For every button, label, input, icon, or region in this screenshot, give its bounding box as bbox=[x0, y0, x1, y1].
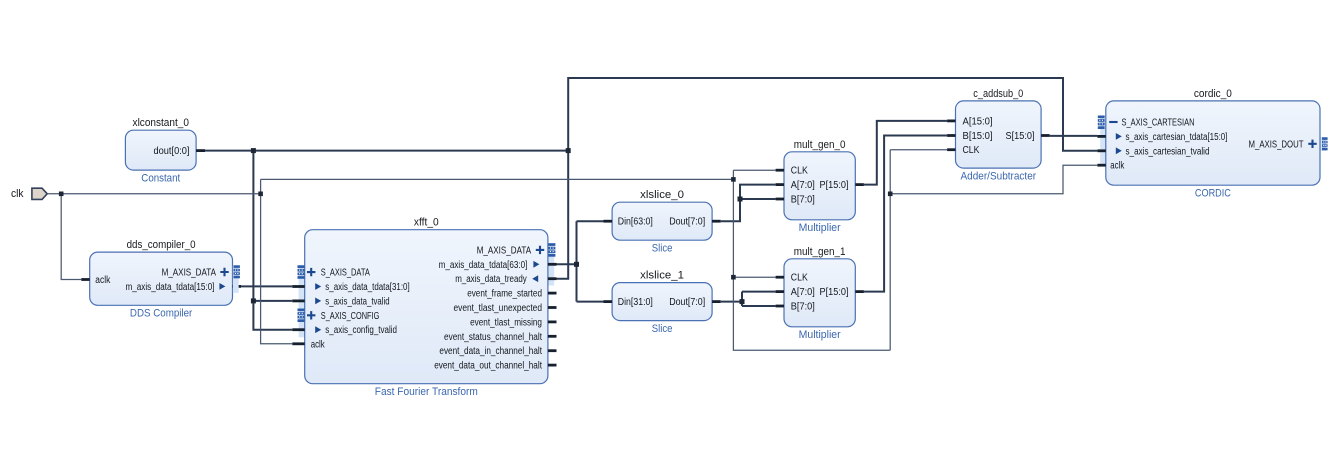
svg-text:s_axis_cartesian_tvalid: s_axis_cartesian_tvalid bbox=[1126, 146, 1210, 157]
svg-text:Dout[7:0]: Dout[7:0] bbox=[669, 297, 705, 308]
svg-text:aclk: aclk bbox=[95, 275, 110, 286]
svg-text:S[15:0]: S[15:0] bbox=[1006, 131, 1035, 142]
svg-text:m_axis_data_tdata[15:0]: m_axis_data_tdata[15:0] bbox=[126, 282, 215, 293]
svg-text:Fast Fourier Transform: Fast Fourier Transform bbox=[375, 386, 478, 398]
svg-text:S_AXIS_CONFIG: S_AXIS_CONFIG bbox=[321, 311, 380, 322]
svg-text:s_axis_data_tdata[31:0]: s_axis_data_tdata[31:0] bbox=[325, 282, 410, 293]
svg-text:s_axis_cartesian_tdata[15:0]: s_axis_cartesian_tdata[15:0] bbox=[1126, 132, 1228, 143]
svg-text:Din[31:0]: Din[31:0] bbox=[618, 297, 653, 308]
svg-text:CORDIC: CORDIC bbox=[1195, 187, 1231, 199]
svg-text:B[15:0]: B[15:0] bbox=[963, 131, 993, 142]
svg-text:P[15:0]: P[15:0] bbox=[820, 180, 849, 191]
svg-text:event_frame_started: event_frame_started bbox=[467, 289, 542, 300]
svg-text:M_AXIS_DATA: M_AXIS_DATA bbox=[162, 268, 217, 279]
svg-text:CLK: CLK bbox=[791, 166, 808, 177]
svg-text:Dout[7:0]: Dout[7:0] bbox=[669, 217, 705, 228]
svg-text:A[7:0]: A[7:0] bbox=[791, 287, 815, 298]
svg-text:event_data_in_channel_halt: event_data_in_channel_halt bbox=[439, 346, 542, 357]
svg-text:mult_gen_1: mult_gen_1 bbox=[794, 246, 846, 258]
svg-text:event_data_out_channel_halt: event_data_out_channel_halt bbox=[434, 361, 542, 372]
svg-text:xlslice_0: xlslice_0 bbox=[640, 189, 684, 201]
svg-text:dout[0:0]: dout[0:0] bbox=[154, 146, 190, 157]
svg-text:M_AXIS_DOUT: M_AXIS_DOUT bbox=[1249, 139, 1304, 150]
svg-text:Slice: Slice bbox=[652, 323, 673, 335]
svg-text:Constant: Constant bbox=[141, 172, 181, 184]
svg-text:A[15:0]: A[15:0] bbox=[963, 116, 993, 127]
svg-text:S_AXIS_CARTESIAN: S_AXIS_CARTESIAN bbox=[1122, 118, 1195, 129]
svg-text:event_status_channel_halt: event_status_channel_halt bbox=[444, 332, 542, 343]
svg-text:s_axis_config_tvalid: s_axis_config_tvalid bbox=[325, 325, 397, 336]
svg-text:B[7:0]: B[7:0] bbox=[791, 302, 815, 313]
svg-text:S_AXIS_DATA: S_AXIS_DATA bbox=[321, 268, 370, 279]
svg-text:CLK: CLK bbox=[963, 145, 980, 156]
svg-text:Multiplier: Multiplier bbox=[799, 329, 841, 341]
svg-text:event_tlast_unexpected: event_tlast_unexpected bbox=[454, 303, 543, 314]
svg-text:cordic_0: cordic_0 bbox=[1194, 88, 1232, 100]
svg-text:xfft_0: xfft_0 bbox=[414, 217, 439, 229]
svg-text:DDS Compiler: DDS Compiler bbox=[130, 308, 193, 320]
svg-text:A[7:0]: A[7:0] bbox=[791, 180, 815, 191]
svg-text:Slice: Slice bbox=[652, 242, 673, 254]
svg-text:c_addsub_0: c_addsub_0 bbox=[973, 88, 1023, 100]
svg-text:aclk: aclk bbox=[311, 339, 325, 350]
svg-text:m_axis_data_tdata[63:0]: m_axis_data_tdata[63:0] bbox=[439, 260, 528, 271]
svg-text:mult_gen_0: mult_gen_0 bbox=[794, 139, 846, 151]
svg-text:P[15:0]: P[15:0] bbox=[820, 287, 849, 298]
svg-text:Din[63:0]: Din[63:0] bbox=[618, 217, 653, 228]
svg-text:aclk: aclk bbox=[1110, 161, 1124, 172]
svg-text:xlslice_1: xlslice_1 bbox=[640, 270, 684, 282]
svg-text:B[7:0]: B[7:0] bbox=[791, 195, 815, 206]
svg-text:M_AXIS_DATA: M_AXIS_DATA bbox=[477, 245, 532, 256]
svg-text:Adder/Subtracter: Adder/Subtracter bbox=[961, 170, 1037, 182]
svg-text:event_tlast_missing: event_tlast_missing bbox=[470, 317, 542, 328]
svg-text:clk: clk bbox=[11, 188, 24, 200]
svg-text:CLK: CLK bbox=[791, 273, 808, 284]
svg-text:xlconstant_0: xlconstant_0 bbox=[133, 117, 189, 129]
svg-text:Multiplier: Multiplier bbox=[799, 222, 841, 234]
svg-text:dds_compiler_0: dds_compiler_0 bbox=[127, 239, 196, 251]
svg-text:s_axis_data_tvalid: s_axis_data_tvalid bbox=[325, 296, 389, 307]
svg-text:m_axis_data_tready: m_axis_data_tready bbox=[455, 274, 527, 285]
